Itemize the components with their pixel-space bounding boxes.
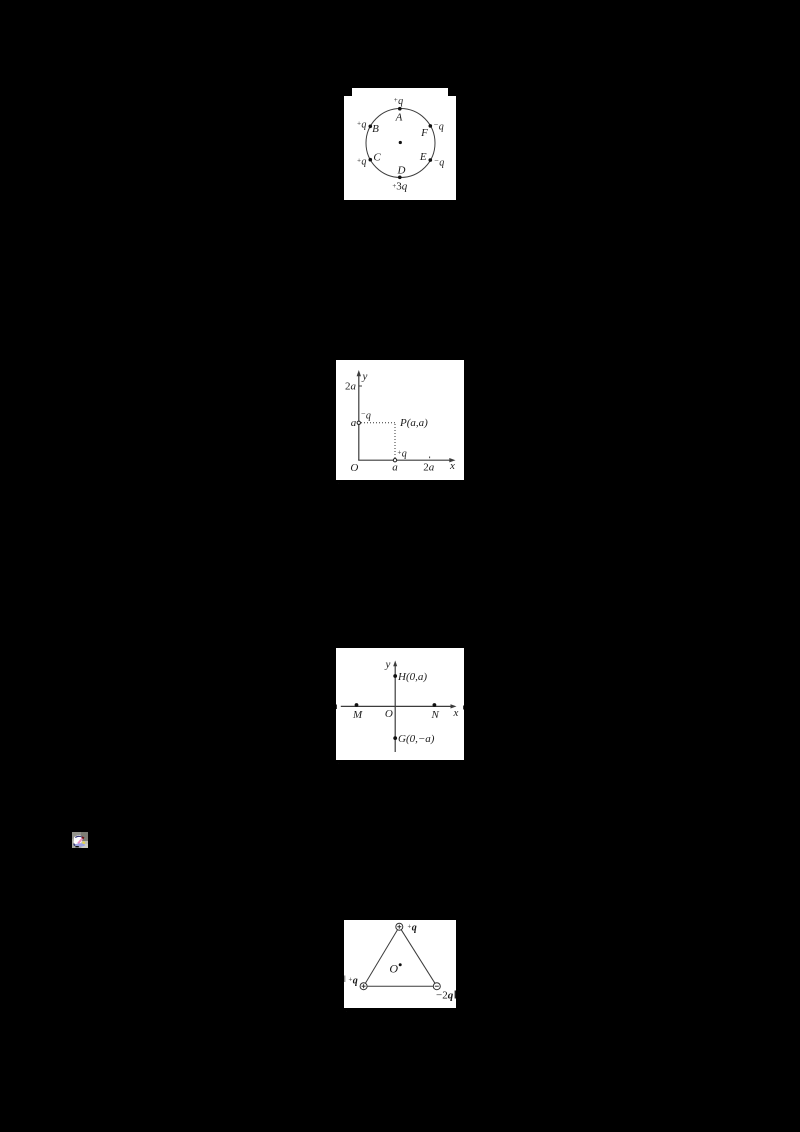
svg-text:.: . [338,761,339,766]
triangle side left [365,930,397,984]
svg-text:H(0,a): H(0,a) [397,671,427,683]
navy top arc [75,836,83,838]
dot N [433,703,437,707]
black dash [75,846,78,847]
dot G [393,736,397,740]
center dot [399,963,402,966]
y axis [358,374,360,461]
charge circle at (0,a) [357,421,360,424]
right edge artifact [455,991,456,999]
triangle side bottom [367,985,433,987]
right edge artifact [463,706,464,710]
svg-text:O: O [385,708,393,720]
svg-text:G(0,−a): G(0,−a) [398,733,435,745]
periwinkle base [75,843,85,846]
svg-text:P(a,a): P(a,a) [399,417,428,429]
figure 2: xy axes with charges at (0,a) and (a,0), point P(a,a) [336,360,464,486]
svg-text:E: E [419,151,427,163]
svg-text:−2q: −2q [436,990,454,1002]
y axis arrowhead [357,370,361,376]
2a tick on x axis [429,457,431,459]
y axis [394,664,396,753]
svg-text:y: y [385,659,391,671]
svg-text:2a: 2a [345,381,357,393]
svg-text:N: N [431,709,440,721]
left edge artifact [336,705,337,710]
svg-text:M: M [352,709,363,721]
charge circle top (+) [396,923,403,930]
white splash [74,835,83,844]
y axis arrowhead [393,661,397,667]
svg-text:O: O [350,462,358,474]
charge circle bottom-right (-) [433,983,440,990]
dotted line (0,a)-P [361,422,395,424]
left edge artifact [344,976,345,983]
svg-text:D: D [397,165,406,177]
charge circle at (a,0) [393,459,396,462]
triangle side right [401,930,435,984]
dot M [355,703,359,707]
svg-text:F: F [420,127,428,139]
svg-text:a: a [392,462,398,474]
svg-text:x: x [453,707,459,719]
figure 4: triangle of charges [344,920,456,1014]
svg-text:y: y [362,371,368,383]
circle ring [366,109,435,178]
icon background quadrants [72,832,88,848]
svg-text:B: B [372,123,379,135]
2a tick on y axis [359,385,362,387]
svg-text:x: x [449,460,455,472]
charge dot B [369,125,373,129]
charge dot D [398,176,402,180]
svg-text:C: C [373,152,381,164]
navy bottom-left mark [73,843,75,846]
charge dot A [398,107,402,111]
yellow dot [82,841,85,844]
svg-text:A: A [395,112,403,124]
small broken-image icon [72,832,88,848]
x axis arrowhead [449,458,455,462]
x axis [358,459,452,461]
svg-text:2a: 2a [423,462,435,474]
charge circle bottom-left (+) [360,983,367,990]
dot H [393,674,397,678]
svg-text:O: O [389,962,398,976]
figure 3: xy axes with H(0,a), G(0,-a), M, N [336,648,464,766]
dotted line P-(a,0) [394,424,396,459]
center dot [399,141,402,144]
dark red tip [82,836,85,839]
svg-text:.: . [338,481,339,486]
svg-text:a: a [351,417,357,429]
pink slash [77,837,83,844]
charge dot F [429,124,433,128]
figure 1: circle with six charges [344,88,456,200]
svg-text:.: . [346,1009,347,1014]
charge dot C [369,158,373,162]
x axis [341,705,453,707]
charge dot E [429,158,433,162]
x axis arrowhead [451,704,457,708]
